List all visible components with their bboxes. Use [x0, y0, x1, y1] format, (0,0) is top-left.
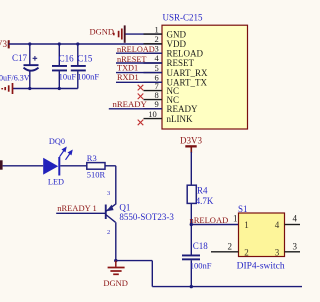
- svg-text:R3: R3: [87, 153, 97, 163]
- svg-text:4: 4: [293, 214, 298, 224]
- svg-text:R4: R4: [197, 186, 208, 196]
- svg-text:10: 10: [148, 109, 157, 119]
- svg-text:3: 3: [107, 190, 110, 197]
- svg-text:RXD1: RXD1: [117, 73, 139, 82]
- svg-text:10uF: 10uF: [59, 72, 77, 82]
- svg-text:510R: 510R: [87, 169, 106, 179]
- svg-text:TXD1: TXD1: [117, 64, 138, 73]
- svg-text:nREADY: nREADY: [113, 99, 148, 109]
- svg-text:4: 4: [275, 220, 280, 230]
- svg-text:3: 3: [293, 242, 298, 252]
- svg-text:RELOAD: RELOAD: [167, 48, 204, 58]
- svg-text:C15: C15: [77, 54, 93, 64]
- svg-text:READY: READY: [167, 104, 198, 114]
- svg-text:100nF: 100nF: [190, 261, 212, 271]
- svg-text:S1: S1: [238, 204, 248, 214]
- svg-text:nRELOAD: nRELOAD: [190, 215, 229, 225]
- svg-text:DGND: DGND: [103, 278, 128, 288]
- svg-text:1: 1: [155, 24, 159, 34]
- svg-text:RESET: RESET: [167, 58, 195, 68]
- svg-text:UART_RX: UART_RX: [167, 68, 208, 78]
- svg-text:nRELOAD: nRELOAD: [117, 45, 155, 54]
- svg-text:5: 5: [155, 63, 159, 73]
- svg-text:C18: C18: [193, 241, 209, 251]
- svg-text:4: 4: [155, 53, 160, 63]
- svg-text:1: 1: [244, 220, 249, 230]
- svg-text:1: 1: [233, 214, 238, 224]
- svg-text:8550-SOT23-3: 8550-SOT23-3: [119, 212, 174, 222]
- svg-text:GND: GND: [167, 29, 187, 39]
- svg-text:D3V3: D3V3: [180, 135, 202, 145]
- svg-text:USR-C215: USR-C215: [163, 13, 204, 23]
- svg-text:DIP4-switch: DIP4-switch: [237, 262, 285, 272]
- svg-text:2: 2: [107, 229, 110, 236]
- svg-text:C17: C17: [12, 53, 28, 63]
- svg-text:nREADY 1: nREADY 1: [57, 203, 97, 213]
- svg-text:2: 2: [244, 248, 249, 258]
- svg-text:LED: LED: [48, 178, 64, 187]
- svg-text:2: 2: [228, 242, 233, 252]
- svg-text:C16: C16: [59, 54, 75, 64]
- svg-text:DGND: DGND: [89, 26, 114, 36]
- svg-text:DQ0: DQ0: [49, 137, 65, 146]
- svg-text:3: 3: [275, 248, 280, 258]
- svg-text:3: 3: [155, 43, 159, 53]
- svg-text:3V3: 3V3: [0, 39, 7, 49]
- svg-text:100uF/6.3V: 100uF/6.3V: [0, 73, 30, 82]
- svg-text:9: 9: [155, 99, 159, 109]
- svg-text:4.7K: 4.7K: [196, 196, 214, 206]
- svg-text:nRESET: nRESET: [117, 55, 147, 64]
- svg-text:100nF: 100nF: [77, 72, 99, 82]
- svg-text:nLINK: nLINK: [167, 114, 193, 124]
